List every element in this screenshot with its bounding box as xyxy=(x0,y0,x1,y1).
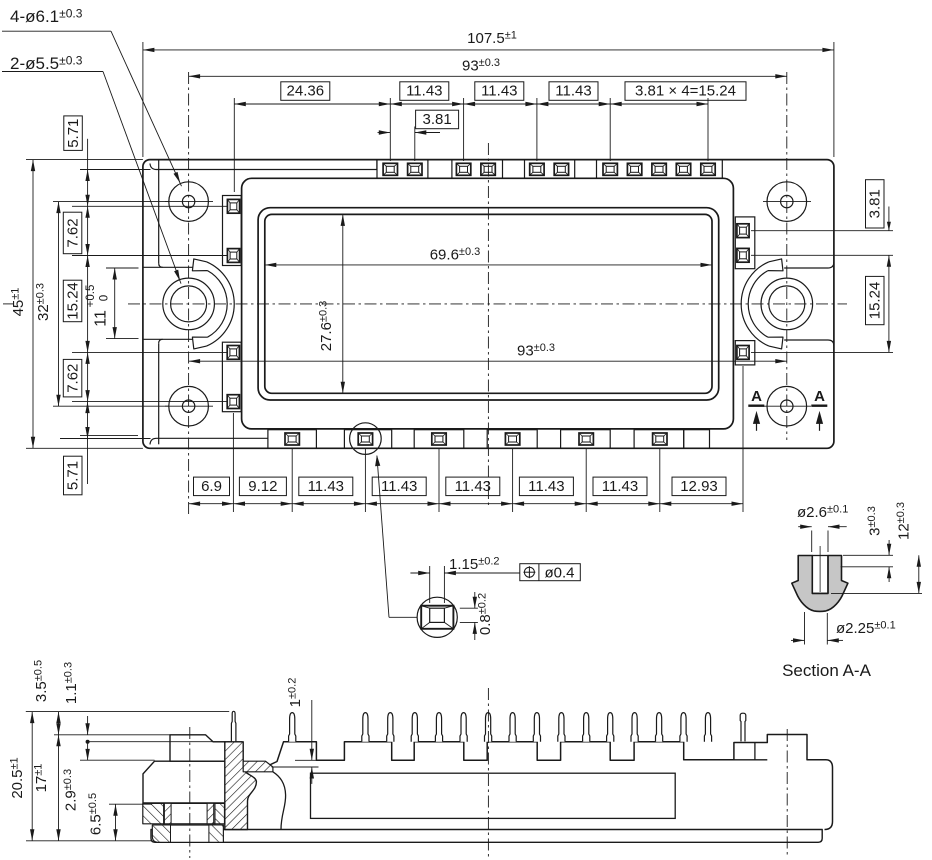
boxed dim 12.93 xyxy=(672,477,726,496)
right pin strip upper xyxy=(735,217,755,269)
dimension 1.1+-0.3 xyxy=(87,716,89,735)
bottom row pins xyxy=(285,433,299,445)
dim line 3.81 xyxy=(378,132,391,134)
svg-text:A: A xyxy=(814,388,825,405)
boxed dim 5.71 bottom xyxy=(64,456,83,495)
dimension 93+-0.3 inner xyxy=(189,360,787,362)
svg-text:11.43: 11.43 xyxy=(602,478,638,495)
dimension 93+-0.3 top xyxy=(189,75,787,77)
svg-text:+0.5: +0.5 xyxy=(85,285,97,308)
side view centerline right hole xyxy=(786,729,788,856)
dimension 45+-1 xyxy=(32,160,34,449)
side extension lines xyxy=(26,711,229,713)
boxed dim 15.24 right xyxy=(866,276,885,324)
bottom extension lines xyxy=(232,413,234,512)
corner mounting hole top-left 4-o6.1 xyxy=(169,182,209,222)
svg-text:ø0.4: ø0.4 xyxy=(544,565,574,582)
svg-text:3.81: 3.81 xyxy=(866,189,883,218)
lid rounded rectangle xyxy=(242,178,734,429)
svg-text:Section A-A: Section A-A xyxy=(782,661,871,680)
svg-text:7.62: 7.62 xyxy=(64,218,81,247)
svg-text:5.71: 5.71 xyxy=(65,119,82,148)
right pin box lower xyxy=(735,341,755,365)
chain dimension line top xyxy=(234,103,708,105)
extension lines top pins xyxy=(233,98,235,192)
boxed dim 11.43 bottom b xyxy=(372,477,426,496)
svg-text:A: A xyxy=(751,388,762,405)
flange bottom slab xyxy=(152,825,223,842)
position tolerance frame o0.4 xyxy=(520,564,581,581)
side view short pin right xyxy=(740,713,746,741)
circled pin callout xyxy=(350,423,382,455)
boxed dim 3.81 xyxy=(416,110,459,129)
boxed dim 11.43 bottom c xyxy=(446,477,500,496)
left pin strip lower xyxy=(222,342,241,412)
side view label rectangle xyxy=(311,773,676,818)
svg-text:11.43: 11.43 xyxy=(555,83,591,100)
svg-text:15.24: 15.24 xyxy=(866,282,883,320)
side view baseplate xyxy=(151,830,822,843)
left boss arc around middle hole xyxy=(207,262,235,346)
flange clamp nut xyxy=(164,803,215,823)
right flange shoulders xyxy=(784,262,834,268)
svg-text:5.71: 5.71 xyxy=(64,461,81,490)
dimension o2.25+-0.1 xyxy=(804,612,806,645)
svg-text:6.9: 6.9 xyxy=(201,478,222,495)
inner rectangle 2 xyxy=(258,208,719,400)
corner mounting hole top-right xyxy=(767,182,807,222)
flange clamp tab hatched xyxy=(243,761,273,772)
bottom inner shelf line xyxy=(150,438,268,444)
boxed dim 11.43 bottom e xyxy=(593,477,647,496)
boxed dim 11.43 bottom d xyxy=(519,477,573,496)
magnified pin glyph xyxy=(421,606,453,629)
svg-text:12.93: 12.93 xyxy=(680,478,718,495)
dimension 12+-0.3 section xyxy=(831,592,922,594)
side view centerline left hole xyxy=(189,727,191,858)
left extension lines xyxy=(26,159,143,161)
boxed dim 11.43 c xyxy=(549,82,598,101)
flange hatched case section xyxy=(225,742,257,830)
svg-text:11.43: 11.43 xyxy=(308,478,344,495)
vertical centerline module center xyxy=(487,143,489,505)
dimension 3.5+-0.5 xyxy=(58,712,60,735)
dimension 32+-0.3 xyxy=(58,202,60,407)
boxed dim 24.36 xyxy=(281,82,330,101)
svg-text:11.43: 11.43 xyxy=(406,83,442,100)
side view tall pin left xyxy=(231,711,236,742)
side view centerline module center xyxy=(487,688,489,858)
bottom pin cells xyxy=(268,430,317,449)
side view pins xyxy=(289,713,296,742)
section A-A peg shape xyxy=(792,556,848,612)
dimension o2.6+-0.1 xyxy=(811,531,813,553)
top row pins xyxy=(383,163,397,175)
magnified pin circle xyxy=(417,597,457,637)
top inner shelf line xyxy=(150,164,377,170)
boxed dim 3.81x4 xyxy=(625,82,746,101)
corner mounting hole bottom-right (section A-A) xyxy=(767,386,807,426)
middle hole left 2-o5.5 xyxy=(171,286,207,322)
main horizontal centerline xyxy=(3,303,13,305)
svg-text:11.43: 11.43 xyxy=(381,478,417,495)
svg-text:0: 0 xyxy=(99,295,111,301)
dimension 6.5+-0.5 xyxy=(115,804,117,841)
flange washer right hatched xyxy=(215,803,225,823)
left flange shoulders xyxy=(143,266,193,268)
inner rectangle 3 xyxy=(265,214,712,393)
right boss arc around middle hole xyxy=(741,262,769,346)
dimension 1+-0.2 side xyxy=(295,759,316,761)
side view case outline with pin deck xyxy=(269,735,833,830)
svg-text:3.81 × 4=15.24: 3.81 × 4=15.24 xyxy=(635,83,736,100)
svg-text:15.24: 15.24 xyxy=(64,282,81,320)
svg-text:7.62: 7.62 xyxy=(64,364,81,393)
right extension lines xyxy=(751,230,893,232)
dimension 69.6+-0.3 xyxy=(265,264,712,266)
dimension 20.5+-1 xyxy=(31,712,33,841)
top pin cells xyxy=(377,160,428,179)
section A-A centerline xyxy=(819,546,821,592)
left flange tab edge xyxy=(158,160,160,264)
flange boss xyxy=(170,735,225,761)
corner mounting hole bottom-left xyxy=(169,386,209,426)
right hole column centerline xyxy=(786,72,788,440)
dimension 1.15+-0.2 xyxy=(429,566,431,603)
boxed dim 7.62 top xyxy=(63,212,82,254)
flange block xyxy=(143,761,225,803)
corner hole crosshairs horizontal xyxy=(165,201,213,203)
dimension 27.6+-0.3 xyxy=(342,214,344,393)
boxed dim 11.43 a xyxy=(400,82,449,101)
svg-text:24.36: 24.36 xyxy=(287,83,325,100)
svg-text:11.43: 11.43 xyxy=(528,478,564,495)
svg-text:11: 11 xyxy=(92,310,109,327)
boxed dim 9.12 xyxy=(239,477,286,496)
pin detail leader xyxy=(377,456,389,618)
svg-text:11.43: 11.43 xyxy=(481,83,517,100)
svg-text:11.43: 11.43 xyxy=(455,478,491,495)
module body outline (top view) xyxy=(143,160,834,449)
boxed dim 3.81 right xyxy=(866,180,885,228)
boxed dim 5.71 top xyxy=(64,116,83,150)
dimension 2.9+-0.3 xyxy=(87,742,89,761)
section A-A slot xyxy=(811,556,813,594)
case front corner curve xyxy=(273,772,286,830)
middle hole right xyxy=(769,286,805,322)
boxed dim 15.24 xyxy=(63,280,82,322)
dimension 17+-1 xyxy=(58,735,60,841)
flange washer left hatched xyxy=(143,803,164,823)
dimension 11 +0.5/0 xyxy=(114,268,116,339)
left pin strip upper xyxy=(223,196,242,266)
chain dimension line bottom xyxy=(189,503,743,505)
svg-text:9.12: 9.12 xyxy=(248,478,277,495)
dimension 0.8+-0.2 xyxy=(460,607,478,609)
svg-text:3.81: 3.81 xyxy=(422,111,451,128)
tall pin pedestal xyxy=(228,742,242,763)
boxed dim 11.43 bottom a xyxy=(299,477,353,496)
left hole column centerline xyxy=(188,72,190,517)
boxed dim 7.62 bottom xyxy=(63,359,82,397)
dimension 107.5+-1 xyxy=(142,42,144,157)
dimension 3+-0.3 section xyxy=(843,554,893,556)
boxed dim 11.43 b xyxy=(475,82,524,101)
boxed dim 6.9 xyxy=(194,477,230,496)
